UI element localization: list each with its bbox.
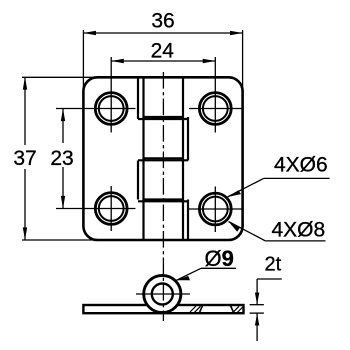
2t extension line bottom (250, 312, 264, 314)
arrow 23 bottom (61, 196, 65, 209)
hole crosshair vertical bottom-left (110, 186, 112, 231)
barrel joint 3 lower line (138, 200, 188, 202)
2t upper arrow head (255, 293, 259, 305)
countersunk hole right edge (side view) (230, 305, 234, 313)
leader Ø9 diagonal (176, 268, 201, 280)
leader Ø9 horizontal (201, 267, 236, 269)
main vertical centerline (dash-dot) (162, 72, 164, 321)
svg-text:4XØ8: 4XØ8 (272, 219, 326, 242)
svg-text:4XØ6: 4XØ6 (274, 154, 328, 177)
svg-text:24: 24 (151, 39, 175, 62)
svg-text:23: 23 (50, 147, 73, 170)
hole crosshair horizontal bottom-right (189, 208, 243, 210)
2t shelf line (257, 278, 282, 280)
leader 4XØ6 arrow (228, 190, 242, 197)
hole bottom-left inner (99, 196, 124, 221)
hole crosshair horizontal top-left (ext for 23) (56, 108, 136, 110)
arrow 37 bottom (23, 227, 27, 240)
hole top-left outer (95, 93, 127, 125)
barrel main right edge (182, 77, 184, 240)
svg-text:36: 36 (151, 10, 174, 33)
barrel outer-left edge segment 3 (137, 161, 139, 200)
dimension line 37 upper part (24, 77, 26, 145)
barrel joint 2 lower line (138, 159, 188, 161)
dimension 37 extension line bottom (22, 239, 98, 241)
svg-text:Ø9: Ø9 (205, 246, 234, 271)
arrow 24 left (111, 59, 124, 63)
hole crosshair vertical top-right (ext for 24) (214, 57, 216, 133)
hole top-right inner (203, 96, 228, 121)
hole crosshair vertical bottom-right (214, 187, 216, 233)
arrow 37 top (23, 77, 27, 90)
barrel joint 1 upper line (144, 116, 184, 118)
barrel main left edge (142, 77, 144, 240)
hole crosshair vertical top-left (ext for 24) (110, 57, 112, 133)
arrow 36 left (83, 31, 96, 35)
2t upper arrow line (256, 279, 258, 304)
barrel outer-right edge segment 4 (187, 200, 189, 241)
2t extension line top (250, 304, 264, 306)
hinge body outline (top view) (83, 77, 242, 240)
hole bottom-left outer (95, 193, 127, 225)
arrow 24 right (203, 59, 216, 63)
hole crosshair horizontal top-right (189, 108, 243, 110)
leader 4XØ8 arrow (229, 222, 240, 232)
dimension line 36 (83, 32, 242, 34)
svg-text:2t: 2t (265, 254, 282, 276)
dimension 36 extension line left (82, 30, 84, 92)
hole top-right outer (199, 93, 231, 125)
side view horizontal centerline (136, 293, 190, 295)
barrel joint 3 upper line (144, 198, 184, 200)
dimension line 37 lower part (24, 169, 26, 240)
barrel circle side view outer (144, 275, 181, 312)
hole top-left inner (99, 96, 124, 121)
leader 4XØ8 horizontal (265, 240, 325, 242)
hatch patch left of hole (190, 306, 201, 312)
arrow 23 top (61, 109, 65, 122)
leader 4XØ6 horizontal (264, 177, 330, 179)
hole crosshair horizontal bottom-left (ext for 23) (56, 208, 136, 210)
hatch patch right of hole (233, 306, 243, 312)
arrow 36 right (230, 31, 243, 35)
2t lower arrow line (256, 314, 258, 342)
dimension line 23 lower part (62, 167, 64, 209)
barrel outer-right edge segment 2 (187, 117, 189, 161)
leader Ø9 arrow (176, 276, 190, 280)
barrel outer-left edge segment 1 (137, 77, 139, 119)
dimension 37 extension line top (22, 76, 98, 78)
dimension 36 extension line right (242, 30, 244, 92)
barrel joint 2 upper line (144, 157, 184, 159)
dimension line 24 (111, 60, 215, 62)
hole bottom-right inner (203, 197, 228, 222)
barrel joint 1 lower line (138, 118, 188, 120)
pin hole side view inner (152, 284, 173, 305)
2t lower arrow head (255, 314, 259, 326)
svg-text:37: 37 (13, 147, 36, 170)
leader 4XØ8 diagonal (229, 222, 266, 241)
countersunk hole left edge (side view) (199, 305, 203, 313)
hole bottom-right outer (199, 193, 231, 225)
dimension line 23 upper part (62, 109, 64, 144)
side view plate outline (83, 305, 243, 313)
leader 4XØ6 diagonal (228, 178, 264, 197)
